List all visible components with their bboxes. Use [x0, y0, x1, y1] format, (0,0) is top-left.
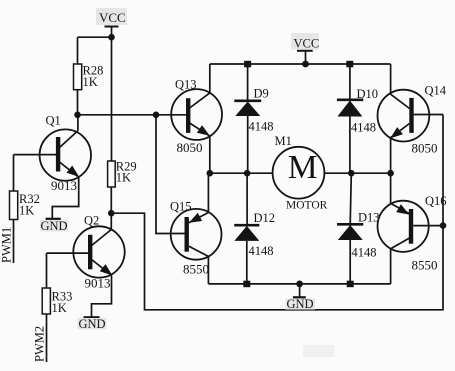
- resistor R29: [108, 160, 137, 188]
- svg-text:VCC: VCC: [99, 10, 126, 25]
- node right bridge midpoint: [387, 170, 394, 177]
- diode D13: [337, 173, 380, 284]
- svg-text:Q2: Q2: [84, 214, 99, 228]
- svg-text:GND: GND: [41, 219, 68, 233]
- diode D9: [234, 64, 273, 173]
- svg-text:4148: 4148: [352, 246, 377, 260]
- ground (Q1): [40, 219, 68, 233]
- diode D10: [337, 64, 378, 173]
- wire Q13 emitter to motor node: [209, 136, 211, 173]
- svg-text:1K: 1K: [19, 204, 34, 218]
- svg-text:GND: GND: [79, 317, 106, 331]
- svg-text:4148: 4148: [249, 120, 274, 134]
- node D13 bottom junction: [347, 281, 354, 288]
- svg-text:9013: 9013: [85, 276, 111, 291]
- wire motor right: [324, 172, 390, 174]
- wire (VCC to R29): [111, 37, 113, 161]
- ground (Q2): [78, 317, 107, 331]
- resistor R32: [10, 191, 40, 220]
- wire Q15 collector to bottom rail: [207, 256, 209, 284]
- node D10 top junction: [346, 61, 353, 68]
- node base-branch junction: [153, 112, 160, 119]
- wire Q16 collector to bottom rail: [390, 249, 392, 284]
- wire motor left: [210, 172, 273, 174]
- resistor R33: [42, 288, 72, 315]
- svg-text:D9: D9: [254, 87, 269, 101]
- transistor Q16: [378, 194, 447, 273]
- svg-text:Q16: Q16: [425, 194, 447, 208]
- wire VCC top rail: [210, 63, 391, 65]
- transistor Q1: [14, 114, 92, 193]
- svg-text:1K: 1K: [83, 75, 98, 89]
- node VCC junction: [108, 34, 115, 41]
- svg-text:8050: 8050: [412, 141, 438, 156]
- svg-text:4148: 4148: [351, 121, 376, 135]
- node VCC rail junction: [302, 61, 309, 68]
- wire Q16 emitter up to motor node: [390, 173, 392, 203]
- svg-text:1K: 1K: [52, 301, 67, 315]
- power symbol VCC (top left): [96, 8, 127, 37]
- wire Q2 base to R33: [46, 253, 48, 288]
- svg-text:D10: D10: [357, 87, 379, 101]
- smudge artifact bottom middle: [303, 345, 334, 357]
- svg-text:M1: M1: [275, 134, 292, 148]
- resistor R28: [74, 64, 104, 90]
- svg-text:PWM1: PWM1: [0, 227, 14, 263]
- transistor Q14: [378, 64, 447, 156]
- svg-text:8550: 8550: [183, 262, 209, 277]
- transistor Q2: [47, 213, 125, 290]
- wire Q1 base to R32: [13, 155, 15, 191]
- wire (PWM1 input lead): [13, 220, 15, 264]
- wire Q14 emitter to motor node: [390, 138, 392, 173]
- node GND rail junction: [296, 281, 303, 288]
- node D12 bottom junction: [243, 281, 250, 288]
- wire: [77, 90, 79, 115]
- node D13 top junction: [348, 170, 355, 177]
- svg-text:8550: 8550: [412, 258, 438, 273]
- transistor Q15: [170, 200, 222, 277]
- svg-text:MOTOR: MOTOR: [286, 200, 328, 212]
- power symbol VCC (top middle): [291, 33, 319, 64]
- wire Q15 emitter up to motor node: [207, 173, 209, 212]
- wire: [110, 187, 112, 213]
- wire (PWM2 input lead): [46, 314, 48, 362]
- svg-text:Q15: Q15: [170, 200, 192, 214]
- motor M1: [273, 134, 328, 212]
- wire Q1 emitter to ground: [52, 177, 78, 219]
- svg-text:GND: GND: [287, 297, 314, 311]
- svg-text:VCC: VCC: [294, 37, 320, 51]
- svg-text:D12: D12: [254, 211, 276, 225]
- svg-text:Q1: Q1: [46, 114, 61, 128]
- wire Q15 base branch: [156, 115, 185, 234]
- svg-text:Q14: Q14: [425, 84, 447, 98]
- svg-text:9013: 9013: [51, 178, 77, 193]
- node Q1 collector junction: [74, 112, 81, 119]
- svg-text:D13: D13: [358, 211, 380, 225]
- diode D12: [234, 173, 275, 284]
- ground (bottom middle): [286, 284, 316, 311]
- node left bridge midpoint: [207, 170, 214, 177]
- svg-text:PWM2: PWM2: [33, 326, 47, 362]
- node Q2 collector junction: [108, 210, 115, 217]
- wire (Q1 collector node to Q13 base): [78, 114, 187, 116]
- wire: [77, 37, 79, 64]
- svg-text:8050: 8050: [177, 140, 203, 155]
- wire Q2 collector to right bridge bases: [111, 115, 443, 310]
- node D12 top junction: [244, 170, 251, 177]
- node Q16 base junction: [440, 222, 447, 229]
- node D9 top junction: [244, 61, 251, 68]
- wire bottom rail: [208, 283, 390, 285]
- svg-text:M: M: [288, 149, 318, 186]
- svg-text:4148: 4148: [249, 244, 274, 258]
- wire Q2 emitter to ground: [92, 276, 112, 318]
- svg-text:1K: 1K: [116, 171, 131, 185]
- wire: [78, 36, 112, 38]
- transistor Q13: [171, 64, 222, 155]
